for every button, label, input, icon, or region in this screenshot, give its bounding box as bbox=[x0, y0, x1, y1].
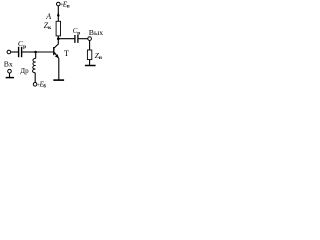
capacitor Cp input right plate bbox=[21, 47, 23, 57]
wire cap to base bbox=[22, 51, 35, 53]
inductor Dr choke arcs bbox=[32, 58, 35, 72]
terminal Vh ground circle bbox=[8, 69, 12, 73]
svg-text:A: A bbox=[45, 12, 51, 21]
resistor Zn box bbox=[87, 50, 91, 60]
svg-text:Вх: Вх bbox=[4, 59, 13, 68]
capacitor Cp output left plate bbox=[74, 35, 76, 43]
transistor T base bar bbox=[53, 47, 55, 55]
wire Vh ground terminal bbox=[9, 73, 11, 77]
node base junction dot bbox=[34, 51, 37, 54]
svg-text:Др: Др bbox=[20, 67, 29, 75]
terminal +Ep circle bbox=[57, 2, 61, 6]
wire choke to Eb terminal bbox=[34, 73, 36, 83]
wire junction to choke bbox=[35, 52, 37, 58]
transistor T emitter arrowhead bbox=[55, 54, 59, 58]
node collector junction dot bbox=[57, 37, 60, 40]
wire supply vertical bbox=[57, 6, 59, 21]
capacitor Cp input left plate bbox=[18, 47, 20, 57]
wire base lead bbox=[36, 51, 54, 53]
wire Zn to ground bbox=[89, 60, 91, 65]
arrowhead current A bbox=[57, 12, 60, 16]
wire input bbox=[11, 51, 18, 53]
transistor T emitter lead bbox=[54, 52, 58, 58]
ground (load) bbox=[85, 65, 96, 67]
capacitor Cp output right plate bbox=[77, 35, 79, 43]
svg-text:Т: Т bbox=[64, 49, 69, 58]
wire emitter to ground bbox=[58, 58, 60, 80]
ground (input) bbox=[6, 77, 14, 79]
terminal Vyh circle bbox=[88, 37, 92, 41]
wire Zk bottom to junction bbox=[57, 36, 59, 39]
wire output terminal to Zn bbox=[89, 40, 91, 50]
svg-text:Вых: Вых bbox=[89, 28, 103, 37]
terminal +Eb circle bbox=[33, 83, 37, 87]
wire collector lead bbox=[54, 39, 58, 48]
resistor Zk box bbox=[56, 21, 60, 36]
terminal Vh circle bbox=[7, 50, 11, 54]
ground (emitter) bbox=[53, 79, 64, 81]
wire cap to output terminal bbox=[79, 38, 88, 40]
wire output horizontal bbox=[58, 38, 74, 40]
